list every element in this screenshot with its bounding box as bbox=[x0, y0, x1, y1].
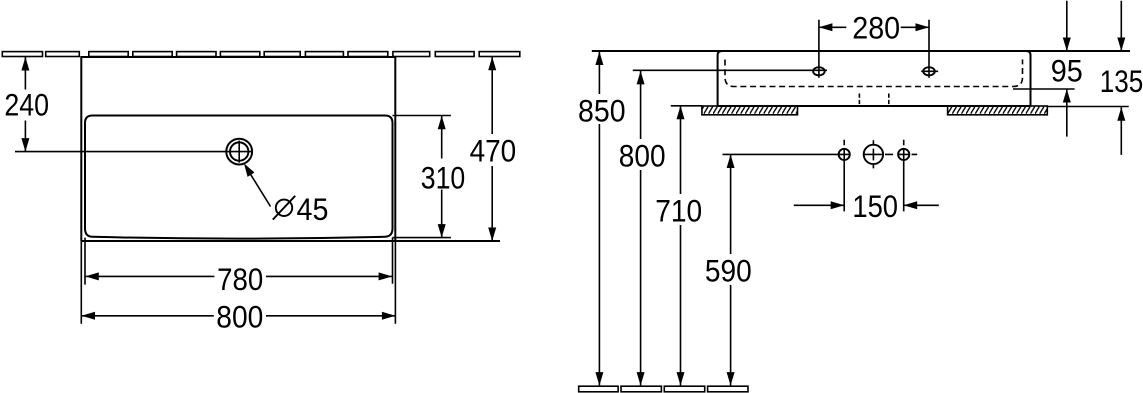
dimension 240 bbox=[4, 57, 49, 152]
dimension 590 bbox=[705, 155, 752, 386]
diameter symbol bbox=[273, 196, 295, 220]
extension lines left bottom bbox=[81, 238, 85, 324]
svg-text:850: 850 bbox=[578, 92, 626, 128]
right tap hole (front view) bbox=[921, 67, 938, 75]
overflow hole left (front view) bbox=[839, 149, 850, 160]
extension line for 710 (basin underside) bbox=[671, 105, 702, 107]
svg-text:150: 150 bbox=[852, 188, 898, 224]
svg-text:710: 710 bbox=[655, 192, 702, 228]
dimension 150 bbox=[794, 188, 939, 224]
right mounting strip (hatched) bbox=[948, 106, 1048, 115]
extension line inner bowl top edge bbox=[393, 115, 451, 117]
dimension 280 bbox=[819, 9, 929, 78]
basin profile bottom edge (front view) bbox=[718, 105, 1031, 107]
svg-text:780: 780 bbox=[217, 261, 263, 297]
svg-text:280: 280 bbox=[852, 9, 900, 45]
svg-text:800: 800 bbox=[619, 138, 666, 174]
extension line for 800 (tap hole height) bbox=[633, 69, 827, 71]
basin profile left edge (front view) bbox=[718, 51, 722, 106]
svg-text:470: 470 bbox=[470, 132, 517, 168]
extension line inner bowl bottom edge bbox=[393, 237, 451, 239]
extension line for 135 (mounting strip underside) bbox=[1047, 106, 1128, 108]
drain hole (front view) bbox=[864, 145, 883, 164]
basin inner bowl (top view) bbox=[85, 116, 393, 239]
left tap hole (front view) bbox=[813, 67, 825, 75]
dimension 710 bbox=[655, 106, 702, 386]
basin outer rim (top view) bbox=[81, 57, 395, 241]
dimension 135 bbox=[1100, 1, 1143, 155]
overflow hole right (front view) bbox=[898, 149, 909, 160]
basin profile right edge (front view) bbox=[1026, 51, 1031, 106]
floor strip bbox=[579, 386, 748, 392]
extension line for 95 (bowl inner bottom) bbox=[1013, 88, 1075, 90]
extension lines right bottom bbox=[393, 238, 396, 324]
tap hole centerline (top view) bbox=[15, 151, 226, 153]
svg-text:310: 310 bbox=[421, 160, 466, 196]
svg-text:240: 240 bbox=[4, 87, 49, 123]
basin outer front edge + extension line for 470 bbox=[81, 240, 500, 242]
svg-text:95: 95 bbox=[1051, 53, 1083, 89]
svg-text:590: 590 bbox=[705, 252, 752, 288]
leader arrowhead bbox=[244, 163, 255, 177]
dimension 780 bbox=[85, 261, 392, 297]
dimension 95 bbox=[1051, 1, 1083, 137]
drain centerline horizontal bbox=[723, 153, 918, 155]
dimension 310 bbox=[421, 116, 466, 238]
dimension 850 bbox=[578, 52, 626, 386]
tap hole (top view) bbox=[226, 139, 252, 165]
wall hatch strip (top view) bbox=[2, 52, 520, 57]
dimension 800 bbox=[82, 299, 396, 335]
dimension 800 (front) bbox=[619, 71, 666, 386]
left mounting strip (hatched) bbox=[702, 106, 798, 115]
svg-text:45: 45 bbox=[297, 191, 329, 227]
hidden drain lines (dashed) bbox=[859, 94, 888, 105]
hidden bowl outline (dashed) bbox=[725, 60, 1023, 87]
top edge line (front view) bbox=[592, 50, 1130, 52]
dimension 470 bbox=[470, 57, 517, 241]
leader line for tap hole bbox=[247, 168, 271, 206]
svg-text:135: 135 bbox=[1100, 63, 1143, 99]
drain centerline verticals bbox=[844, 140, 904, 212]
svg-text:800: 800 bbox=[216, 299, 263, 335]
